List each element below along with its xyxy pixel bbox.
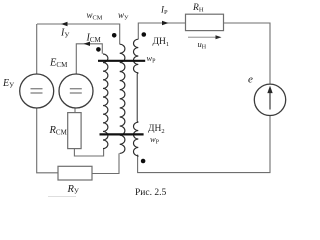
svg-text:Рис. 2.5: Рис. 2.5 (135, 188, 166, 198)
svg-text:e: e (248, 74, 253, 86)
